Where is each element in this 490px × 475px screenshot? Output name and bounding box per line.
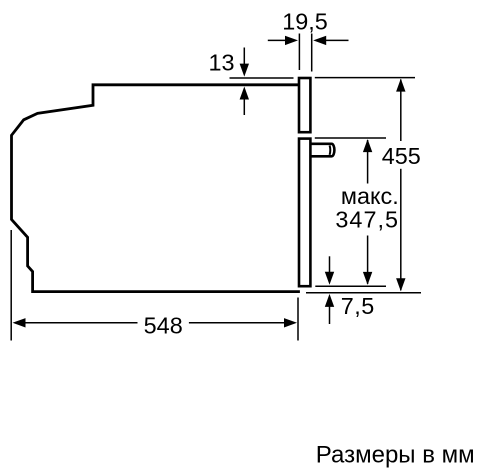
- dimension 548 right extension line: [297, 298, 299, 341]
- svg-text:Размеры в мм: Размеры в мм: [316, 442, 475, 469]
- oven body outline: [12, 85, 300, 292]
- dimension 455 vertical line upper: [400, 80, 402, 142]
- dimension 455 vertical line lower: [400, 169, 402, 290]
- dimension 7,5 down arrow: [329, 256, 331, 273]
- dimension 13 up arrow: [240, 87, 249, 100]
- svg-text:347,5: 347,5: [335, 206, 399, 232]
- dimension 548 right arrowhead: [284, 318, 297, 327]
- dimension 347,5 vertical line upper: [367, 140, 369, 184]
- dimension 347,5 vertical line lower: [367, 236, 369, 284]
- svg-text:13: 13: [208, 49, 234, 75]
- dimension 548 line left segment: [24, 322, 138, 324]
- dimension 7,5 up arrow: [325, 294, 334, 307]
- dimension 548 left extension line: [10, 230, 12, 341]
- dimension 19,5 left extension line: [298, 34, 300, 71]
- dimension 19,5 left arrow: [268, 39, 287, 41]
- dimension 347,5 up arrowhead: [363, 139, 372, 152]
- dimension 347,5 top line: [315, 137, 386, 139]
- dimension 13 extension line: [230, 77, 294, 79]
- front panel lower section: [299, 139, 310, 287]
- dimension 347,5 down arrowhead: [363, 272, 372, 285]
- svg-text:455: 455: [382, 143, 421, 169]
- dimension 455 down arrowhead: [396, 278, 405, 291]
- dimension 455 top line: [315, 77, 415, 79]
- front panel upper section: [299, 78, 310, 132]
- latch pin cap inner line: [329, 145, 332, 155]
- dimension 19,5 right arrow: [325, 39, 349, 41]
- dimension 548 line right segment: [189, 322, 286, 324]
- extension line at panel bottom: [315, 285, 386, 287]
- dimension 455 up arrowhead: [396, 79, 405, 92]
- svg-text:548: 548: [144, 312, 183, 338]
- svg-text:19,5: 19,5: [282, 8, 328, 34]
- svg-text:7,5: 7,5: [341, 293, 375, 319]
- dimension 19,5 right extension line: [311, 34, 313, 72]
- svg-text:макс.: макс.: [341, 183, 399, 209]
- dimension 548 left arrowhead: [13, 318, 26, 327]
- bottom extension line at body bottom: [306, 292, 421, 294]
- door latch pin: [311, 144, 334, 157]
- dimension 13 down arrow: [243, 48, 245, 67]
